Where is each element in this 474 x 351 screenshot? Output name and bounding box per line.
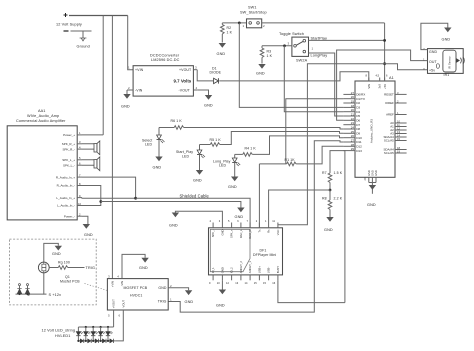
ground symbol (Arduino) [369, 185, 376, 190]
svg-text:+VOUT: +VOUT [179, 68, 192, 72]
DCDC converter box [133, 66, 193, 96]
wire Power_- to ground [82, 216, 88, 226]
MOSFET PCB HVDC1 box [107, 279, 168, 310]
wire R1 left down to DFPlayer RX [258, 164, 260, 228]
svg-text:R_Audio_In_+: R_Audio_In_+ [56, 175, 75, 179]
svg-text:VIN: VIN [367, 84, 371, 89]
ground symbol (HVDC1 -VIN) [141, 258, 148, 263]
svg-text:SW_Start/Stop: SW_Start/Stop [240, 11, 267, 15]
svg-text:SW1: SW1 [248, 6, 257, 10]
ground symbol (supply) [80, 38, 87, 41]
speaker SPK_L [82, 157, 100, 171]
svg-text:GND: GND [139, 266, 148, 270]
SECTION: leds mid [142, 99, 343, 228]
svg-text:SCL/A5: SCL/A5 [384, 151, 394, 155]
svg-text:R2: R2 [227, 26, 232, 30]
svg-text:-VIN: -VIN [120, 281, 124, 286]
wire toggle common to R3 [262, 45, 292, 47]
svg-text:GND: GND [153, 166, 162, 170]
node junction cable A [134, 197, 137, 200]
svg-text:D13: D13 [356, 149, 362, 153]
LED string vertical LED 5 [106, 326, 113, 342]
wire Power_+ to 12V rail [82, 134, 103, 136]
svg-text:L_Audio_In_+: L_Audio_In_+ [56, 196, 75, 200]
resistor R1 [259, 158, 296, 166]
wire D1 to Arduino VIN (9.7V) [219, 72, 368, 81]
SECTION: q1 inset [10, 239, 108, 305]
svg-text:+VIN: +VIN [135, 68, 144, 72]
resistor R5 [200, 138, 222, 147]
node junction cable B [99, 200, 102, 203]
svg-text:GND: GND [84, 233, 93, 237]
DFPlayer bottom pin numbers [209, 281, 276, 285]
ground elbow to DFPlayer GND pin [175, 211, 222, 222]
svg-text:GND: GND [52, 252, 61, 256]
svg-text:DFPlayer Mini: DFPlayer Mini [253, 253, 276, 257]
svg-text:18: 18 [397, 146, 400, 150]
svg-text:IR1: IR1 [444, 73, 450, 77]
svg-text:R1 1K: R1 1K [285, 158, 296, 162]
wire R5 to Arduino D9 [220, 132, 344, 145]
svg-text:R7: R7 [322, 171, 327, 175]
pin 4 -VOUT [193, 89, 197, 91]
left pin numbers [351, 91, 355, 151]
svg-text:GND: GND [442, 38, 451, 42]
ground symbol (Long_Play LED) [231, 177, 238, 182]
svg-text:GND: GND [228, 185, 237, 189]
svg-text:Ground: Ground [77, 44, 90, 48]
node junction divider [329, 189, 332, 192]
node junction +5V to IR [383, 62, 386, 65]
supply minus bar [71, 30, 92, 32]
right pin labels [384, 93, 395, 156]
wire +VOUT down to LED string top rail [113, 310, 115, 327]
wire Arduino D11 to HVDC1 TRIG [168, 141, 343, 312]
svg-text:MOSFET PCB: MOSFET PCB [124, 286, 148, 290]
svg-text:15: 15 [397, 137, 400, 141]
resistor Rg 100 [49, 260, 84, 269]
svg-text:-VOUT: -VOUT [121, 300, 125, 309]
LED string vertical LED 1 [76, 327, 83, 342]
wire cable B to ground at DFPlayer [101, 202, 241, 208]
svg-text:IO_1: IO_1 [211, 267, 215, 273]
Arduino A1 box [355, 81, 395, 177]
svg-text:3v3: 3v3 [378, 84, 382, 89]
svg-text:DAC_L: DAC_L [239, 229, 243, 238]
svg-text:HVDC1: HVDC1 [130, 293, 142, 297]
svg-text:-VIN: -VIN [135, 88, 143, 92]
right pin numbers [397, 91, 400, 154]
svg-text:GND: GND [220, 229, 224, 235]
wire rail to HVDC1 +VIN [111, 16, 113, 279]
svg-text:IOREF: IOREF [385, 101, 394, 105]
left pin stubs D0-D13 [343, 94, 355, 150]
svg-text:OUT: OUT [429, 60, 437, 64]
DFPlayer top pin labels [211, 229, 280, 239]
svg-text:R6 1 K: R6 1 K [171, 119, 183, 123]
svg-text:BUSY: BUSY [276, 266, 280, 274]
svg-text:WiVe_Audio_Amp: WiVe_Audio_Amp [27, 114, 59, 118]
resistor R3 [260, 46, 272, 64]
dashed inset box [10, 239, 97, 305]
svg-text:GND: GND [216, 304, 225, 308]
svg-text:GND: GND [158, 286, 166, 290]
LED string vertical LED 4 [98, 326, 105, 342]
node junction StartPlay [383, 39, 386, 42]
svg-text:13: 13 [397, 130, 400, 134]
DFPlayer DF1 box [209, 228, 283, 275]
svg-text:LED: LED [145, 143, 152, 147]
svg-text:IO_2: IO_2 [230, 267, 234, 273]
svg-text:Power_-: Power_- [64, 214, 75, 218]
wire LongPlay down to Arduino D5 [309, 53, 344, 116]
ground symbol (R3) [258, 64, 265, 69]
wire toggle common down to Arduino D4 [284, 46, 343, 112]
svg-text:R_Audio_In_-: R_Audio_In_- [57, 184, 75, 188]
ground symbol (Select LED) [155, 157, 162, 162]
ground symbol (IR) [444, 28, 451, 33]
svg-text:R8: R8 [322, 197, 327, 201]
svg-text:D2: D2 [356, 101, 360, 105]
toggle switch SW2A [279, 32, 314, 63]
SECTION: ir sensor [337, 23, 465, 120]
node junction source [27, 293, 30, 296]
svg-text:D9: D9 [356, 132, 360, 136]
wire minus to ground [82, 32, 84, 39]
svg-text:L_Audio_In_-: L_Audio_In_- [57, 204, 75, 208]
svg-text:GND: GND [370, 170, 374, 176]
wire +VOUT to diode D1 [197, 70, 213, 81]
LED string bottom chain wire [78, 340, 115, 342]
svg-text:GND: GND [367, 203, 376, 207]
svg-text:Arduino_UNO_R3: Arduino_UNO_R3 [370, 119, 374, 144]
svg-text:19: 19 [351, 100, 355, 104]
LED string horizontal LED 3 [95, 339, 99, 343]
wire Q1 drain to ground [44, 243, 59, 262]
dotted association line [85, 284, 108, 291]
wire DFPlayer BUSY to riser [278, 280, 345, 302]
svg-text:SPK_+: SPK_+ [230, 229, 234, 238]
LED Long_Play [213, 154, 240, 176]
svg-text:12: 12 [397, 127, 400, 131]
SECTION: led string [42, 310, 124, 343]
svg-text:GND: GND [204, 104, 213, 108]
wire R_Audio_In_+ to cable A [82, 177, 136, 198]
SECTION: amplifier [7, 109, 250, 237]
IR emit arrows [456, 58, 459, 62]
svg-text:S +12v: S +12v [49, 293, 62, 297]
transistor Q1 mosfet [38, 262, 80, 283]
ground symbol (DFPlayer) [219, 290, 226, 295]
svg-text:LM2596 DC-DC: LM2596 DC-DC [151, 58, 180, 62]
LED string horizontal LED 2 [88, 339, 92, 343]
svg-text:ADKEY_1: ADKEY_1 [248, 261, 252, 274]
LED Start_Play [176, 145, 205, 171]
wire +5V riser [384, 23, 386, 81]
wire IR GND up to ground [421, 23, 448, 49]
ground symbol (-VIN) [123, 94, 130, 99]
svg-text:SW2A: SW2A [296, 59, 308, 63]
LED string horizontal LED 4 [102, 339, 106, 343]
IR sensor IR1 box [428, 49, 464, 74]
wire +5V branch left to DFPlayer VCC [278, 64, 385, 225]
svg-text:DAC_R: DAC_R [248, 229, 252, 238]
ground symbol (HVDC1 GND) [185, 290, 192, 295]
node junction SW1 input [238, 22, 241, 25]
svg-text:10: 10 [397, 120, 400, 124]
svg-text:Shielded Cable: Shielded Cable [180, 193, 210, 198]
wire -VOUT down to LED string return [115, 310, 123, 341]
wire StartPlay to +5V node [309, 39, 385, 41]
HVDC1 right pin GND [168, 288, 188, 291]
LED string vertical LED 2 [84, 326, 91, 342]
pin 2 -VIN [127, 89, 133, 91]
svg-text:GND: GND [429, 50, 437, 54]
IR lens oval [436, 64, 439, 69]
wire Arduino D1/TX down to R1 [286, 99, 344, 164]
wire divider tap to DFPlayer Rx [269, 190, 330, 223]
SECTION: divider [168, 141, 345, 312]
resistor R6 [159, 119, 184, 130]
ground symbol (cable B) [237, 208, 244, 213]
svg-text:1.5 K: 1.5 K [334, 171, 343, 175]
amp pin stubs [77, 135, 82, 216]
svg-text:4,5: 4,5 [376, 74, 380, 78]
LED string horizontal LED 5 [110, 339, 114, 343]
svg-text:GND: GND [217, 52, 226, 56]
wire R2 top to SW1 [222, 22, 246, 24]
wire SW1 junction down to Arduino D3 [239, 23, 343, 108]
wire cable A to DFPlayer DAC_R [136, 198, 251, 228]
SECTION: dcdc [121, 53, 369, 108]
node junction toggle common [283, 44, 286, 47]
wire -VIN to ground [122, 254, 145, 278]
svg-text:-VOUT: -VOUT [179, 88, 191, 92]
svg-text:R4 1 K: R4 1 K [245, 147, 257, 151]
ground symbol (R8) [326, 217, 333, 222]
wire L_Audio_In_- up to cable B [82, 202, 101, 206]
amp pin labels [56, 133, 75, 218]
wire -VOUT to ground [197, 90, 208, 95]
wire SW1 pin2 to +5V riser [262, 22, 385, 24]
wire BUSY riser to Arduino D13 and R7 top [330, 151, 345, 303]
svg-text:Commercial Audio Amplifier: Commercial Audio Amplifier [16, 119, 66, 123]
pin 3 +VOUT [193, 69, 197, 71]
svg-text:Mosfet PCB: Mosfet PCB [60, 279, 80, 283]
svg-text:LongPlay: LongPlay [311, 54, 328, 58]
svg-text:SPK_-: SPK_- [211, 229, 215, 237]
svg-text:SPK_R_+: SPK_R_+ [62, 142, 76, 146]
svg-text:GND: GND [185, 300, 194, 304]
svg-text:ADKEY_2: ADKEY_2 [239, 261, 243, 274]
svg-text:19: 19 [397, 150, 400, 154]
amplifier AA1 box [7, 126, 77, 220]
svg-text:HVLED1: HVLED1 [55, 334, 71, 338]
svg-text:SPK_L_+: SPK_L_+ [62, 158, 75, 162]
svg-text:2.2 K: 2.2 K [334, 197, 343, 201]
svg-text:Toggle Switch: Toggle Switch [279, 32, 304, 36]
svg-text:USB+: USB+ [257, 266, 261, 274]
wire L_Audio_In_+ cable A start [82, 197, 136, 200]
wire +5V branch right to IR sensor [385, 64, 428, 70]
ground symbol (Start_Play LED) [196, 170, 203, 175]
svg-text:+VOUT: +VOUT [112, 299, 116, 308]
svg-text:25: 25 [351, 130, 355, 134]
svg-text:+VIN: +VIN [110, 281, 114, 287]
LED string vertical LED 3 [91, 326, 98, 342]
wire R6 to Arduino D8 [184, 128, 344, 130]
svg-text:AA1: AA1 [38, 109, 46, 113]
svg-text:TRIG: TRIG [158, 300, 167, 304]
svg-text:+5v: +5v [429, 69, 435, 73]
svg-text:+5V: +5V [383, 84, 387, 89]
svg-text:GND: GND [169, 224, 178, 228]
wire DFPlayer bottom GND to ground [221, 280, 223, 291]
svg-text:10: 10 [78, 202, 81, 206]
right pin stubs [395, 94, 407, 153]
SECTION: mosfet pcb [107, 254, 193, 317]
svg-text:29: 29 [351, 147, 355, 151]
wire R4 to Arduino D10 [252, 136, 343, 155]
top pin stubs VIN 3v3 +5V [369, 78, 385, 82]
svg-text:9.7 Volts: 9.7 Volts [174, 79, 192, 84]
SECTION: dfplayer [169, 211, 345, 307]
wire Q1 source to +12v [44, 273, 47, 294]
svg-text:USB-: USB- [267, 267, 271, 274]
svg-text:LED: LED [182, 155, 189, 159]
svg-text:R3: R3 [267, 50, 272, 54]
svg-text:D6: D6 [356, 119, 360, 123]
svg-text:AREF: AREF [386, 113, 394, 117]
left pin labels [356, 93, 365, 153]
amp pin numbers [78, 131, 81, 216]
wire rail to DCDC +VIN [128, 16, 133, 70]
svg-text:14: 14 [397, 134, 400, 138]
svg-text:Power_+: Power_+ [63, 133, 75, 137]
top pin numbers [366, 74, 389, 78]
svg-text:GND: GND [374, 170, 378, 176]
speaker SPK_R [82, 141, 100, 155]
ground symbol (cable shield elbow) [172, 213, 179, 218]
ground symbol (amp) [83, 224, 90, 229]
svg-text:RESET: RESET [384, 93, 394, 97]
svg-text:SPK_L_-: SPK_L_- [63, 163, 75, 167]
svg-text:GND: GND [235, 215, 244, 219]
svg-text:1 K: 1 K [227, 31, 233, 35]
svg-text:12 Volt LED_string: 12 Volt LED_string [42, 328, 76, 332]
12 Volt Supply minus terminal [64, 30, 69, 32]
wire rail to amp Power_+ [102, 16, 104, 135]
12 Volt Supply plus terminal [64, 13, 68, 17]
svg-text:GND: GND [220, 267, 224, 273]
svg-text:SCL/A5: SCL/A5 [384, 139, 394, 143]
DFPlayer module outline [210, 229, 250, 271]
DFPlayer bottom pin labels [211, 261, 280, 274]
resistor R7 [322, 171, 343, 190]
svg-text:DIODE: DIODE [210, 71, 222, 75]
wire +12V top rail [69, 15, 128, 17]
IR sensor module body [443, 50, 456, 72]
svg-text:GND: GND [256, 72, 265, 76]
ground symbol (-VOUT) [205, 95, 212, 100]
protection diode pair [17, 284, 29, 296]
SECTION: power supply [56, 13, 133, 279]
resistor R8 [322, 190, 343, 217]
SECTION: switches [217, 6, 428, 225]
svg-text:A1: A1 [389, 76, 394, 80]
switch SW1 SW_Start/Stop [240, 6, 267, 28]
ground symbol (Q1 drain) [55, 246, 62, 251]
svg-text:12 Volt Supply: 12 Volt Supply [56, 23, 82, 27]
svg-text:1 K: 1 K [267, 54, 273, 58]
svg-text:IR Sensor: IR Sensor [448, 56, 452, 69]
DFPlayer top pin numbers [210, 219, 276, 223]
LED Select [142, 128, 165, 157]
svg-text:DCDCConverter: DCDCConverter [150, 53, 180, 57]
SECTION: arduino [343, 74, 406, 208]
svg-text:SPK_R_-: SPK_R_- [62, 147, 75, 151]
svg-text:GND: GND [324, 228, 333, 232]
LED string horizontal LED 1 [80, 339, 84, 343]
ground symbol (R2) [219, 43, 226, 48]
wire R_Audio_In_- to cable B [82, 186, 101, 202]
diode D1 [210, 67, 222, 84]
svg-text:LED: LED [219, 164, 226, 168]
DFPlayer top pin stubs [213, 223, 278, 228]
wire R1 right to Arduino D12 [296, 146, 343, 164]
svg-text:22: 22 [351, 117, 355, 121]
resistor R2 [221, 23, 233, 43]
svg-text:TRIG: TRIG [86, 266, 96, 270]
wire IR OUT to Arduino D6 [337, 50, 428, 120]
DFPlayer bottom pin stubs [213, 275, 278, 280]
svg-text:R5 1 K: R5 1 K [210, 138, 222, 142]
svg-text:GND: GND [367, 170, 371, 176]
svg-text:GND: GND [121, 105, 130, 109]
resistor R4 [235, 147, 257, 157]
svg-text:VCC: VCC [276, 229, 280, 235]
bottom GND pin stubs [369, 177, 376, 194]
svg-text:GND: GND [193, 179, 202, 183]
wire -VIN to ground [126, 90, 128, 94]
LED string top rail [78, 326, 113, 328]
svg-text:Rg 100: Rg 100 [58, 260, 70, 264]
